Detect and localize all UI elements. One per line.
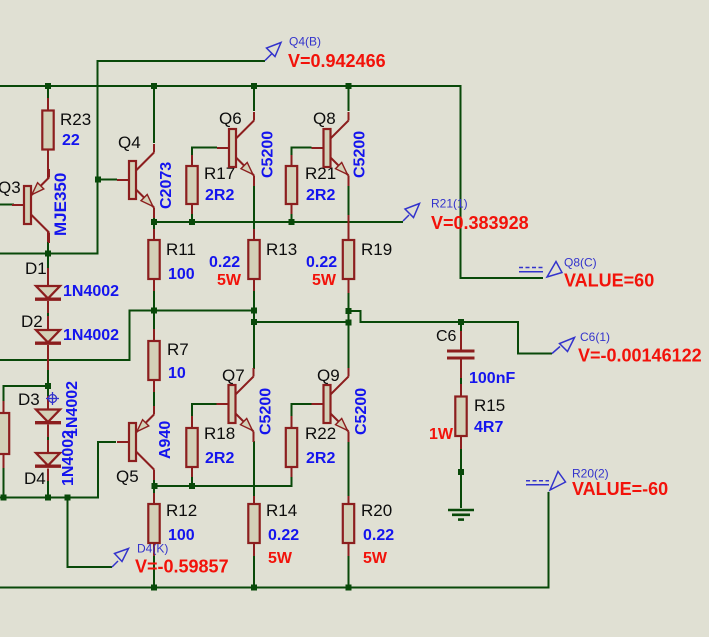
- junction driver rail / Q5 collector / R12: [152, 483, 158, 489]
- wire R19 bottom to jog junction: [348, 279, 350, 311]
- wire Q8 collector to top rail: [348, 86, 350, 111]
- svg-text:5W: 5W: [312, 272, 337, 289]
- svg-text:0.22: 0.22: [268, 527, 299, 544]
- svg-text:2R2: 2R2: [306, 450, 335, 467]
- junction jog lower / R19 column: [346, 320, 352, 326]
- junction top rail / Q4 collector: [151, 83, 157, 89]
- wire Q4 collector to top rail: [153, 86, 155, 143]
- voltage probe Q4(B) labels: [288, 35, 386, 72]
- wire Q6 collector to top rail: [253, 86, 255, 111]
- transistor Q8: [312, 109, 369, 186]
- voltage probe Q4(B) arrow: [265, 43, 281, 61]
- svg-text:1N4002: 1N4002: [60, 430, 77, 486]
- svg-text:2R2: 2R2: [205, 187, 234, 204]
- transistor Q3: [0, 169, 70, 243]
- wire Q4(B) probe branch: [98, 61, 266, 254]
- resistor R18: [186, 424, 235, 467]
- wire R18 bottom to driver rail: [191, 467, 193, 486]
- transistor Q7: [217, 366, 275, 442]
- svg-text:R19: R19: [361, 240, 392, 259]
- junction jog upper / R19 column: [346, 308, 352, 314]
- svg-text:A940: A940: [157, 421, 174, 459]
- svg-text:R11: R11: [166, 240, 196, 259]
- junction bottom rail / R14: [251, 585, 257, 591]
- svg-text:R13: R13: [266, 240, 297, 259]
- diode D1: [25, 259, 119, 300]
- transistor Q9: [312, 366, 371, 442]
- wire R18 top to Q7 base: [192, 404, 217, 428]
- ground symbol: [448, 510, 474, 520]
- wire Q6 emitter to R13 top: [253, 185, 255, 240]
- resistor R13: [209, 240, 297, 289]
- wire D1 cathode to D2 anode: [47, 301, 49, 330]
- svg-text:Q4: Q4: [118, 133, 141, 152]
- svg-text:1N4002: 1N4002: [63, 327, 119, 344]
- svg-text:2R2: 2R2: [306, 187, 335, 204]
- resistor R15: [429, 396, 505, 443]
- wire bottom-left rail y=497 and Q5 base branch: [0, 442, 116, 498]
- resistor R12: [148, 501, 197, 544]
- svg-text:0.22: 0.22: [306, 254, 337, 271]
- wire R7 bottom to Q5 emitter: [153, 380, 155, 408]
- svg-text:C6(1): C6(1): [580, 330, 610, 344]
- junction R15 ground wire: [458, 469, 464, 475]
- svg-text:D4: D4: [24, 469, 46, 488]
- transistor Q6: [217, 109, 277, 186]
- svg-text:Q4(B): Q4(B): [289, 35, 321, 49]
- wire node y=386 to D3 anode: [47, 386, 49, 410]
- junction Q3 collector / D1 node: [45, 251, 51, 257]
- svg-text:V=-0.59857: V=-0.59857: [135, 557, 229, 577]
- junction bottom-left rail / D4(K) probe: [65, 495, 71, 501]
- wire driver rail junction to R12 top: [153, 486, 155, 504]
- junction top rail / R23: [45, 83, 51, 89]
- svg-text:100nF: 100nF: [469, 370, 515, 387]
- resistor R22: [286, 424, 336, 467]
- svg-text:5W: 5W: [217, 272, 242, 289]
- wire output rail y=322 left segment: [254, 321, 349, 323]
- svg-text:R22: R22: [305, 424, 336, 443]
- svg-text:100: 100: [168, 266, 195, 283]
- svg-text:C6: C6: [436, 328, 457, 345]
- junction bottom rail / R12: [151, 585, 157, 591]
- wire Q4 emitter to mid rail junction: [153, 216, 155, 222]
- svg-text:R12: R12: [166, 501, 197, 520]
- junction mid rail / R21: [289, 219, 295, 225]
- resistor R19: [306, 240, 392, 289]
- wire left resistor branch: [4, 386, 49, 413]
- transistor Q4: [117, 133, 175, 218]
- wire Q8(C) branch down and right: [461, 85, 544, 278]
- wire top positive rail: [0, 85, 461, 87]
- svg-text:5W: 5W: [363, 550, 388, 567]
- svg-text:Q8(C): Q8(C): [564, 256, 597, 270]
- wire R21 top to Q8 base: [292, 148, 312, 167]
- resistor R20: [343, 501, 394, 567]
- junction mid rail / R17: [189, 219, 195, 225]
- junction top rail / Q6 collector: [251, 83, 257, 89]
- svg-text:10: 10: [168, 365, 186, 382]
- wire Q9 emitter to R20 top: [348, 441, 350, 507]
- junction bottom rail / R20: [346, 585, 352, 591]
- svg-text:Q5: Q5: [116, 467, 139, 486]
- svg-text:4R7: 4R7: [474, 419, 503, 436]
- svg-text:R15: R15: [474, 396, 505, 415]
- wire R12 bottom to bottom rail: [153, 543, 155, 588]
- svg-text:V=0.383928: V=0.383928: [431, 213, 529, 233]
- svg-text:22: 22: [62, 132, 80, 149]
- wire mid rail y=222 to probe R21(1): [154, 221, 403, 223]
- wire R17 top to Q6 base: [192, 148, 217, 167]
- wire R23 top pin to rail: [47, 86, 49, 111]
- voltage probe C6(1) arrow: [552, 338, 575, 354]
- resistor R11: [148, 240, 196, 283]
- svg-text:D3: D3: [18, 390, 40, 409]
- junction output rail / R11-R7: [151, 308, 157, 314]
- wire Q3 collector to node: [47, 232, 49, 254]
- voltage probe D4(K) arrow: [112, 549, 129, 568]
- svg-text:1N4002: 1N4002: [63, 283, 119, 300]
- diode D4: [24, 430, 77, 488]
- voltage probe C6(1) labels: [578, 330, 702, 366]
- wire driver rail y=486 (Q5 collector): [155, 467, 292, 486]
- dc generator probe Q8(C) symbol: [519, 262, 562, 278]
- svg-text:R14: R14: [266, 501, 297, 520]
- svg-text:Q9: Q9: [317, 366, 340, 385]
- svg-text:D1: D1: [25, 259, 47, 278]
- junction Q4 base / probe branch: [95, 177, 101, 183]
- wire R23 to Q3 emitter: [47, 149, 49, 179]
- resistor R7: [148, 340, 188, 382]
- svg-text:R7: R7: [167, 340, 189, 359]
- wire D4 cathode to bottom-left rail: [47, 469, 49, 498]
- svg-text:Q7: Q7: [222, 366, 245, 385]
- wire Q7 emitter to R14 top: [253, 441, 255, 507]
- svg-text:R18: R18: [204, 424, 235, 443]
- wire Q8 emitter to R19 top: [348, 185, 350, 240]
- transistor Q5: [116, 406, 174, 486]
- svg-text:D2: D2: [21, 312, 43, 331]
- wire D3 cathode to D4 anode: [47, 425, 49, 454]
- junction output rail / R13 column: [251, 308, 257, 314]
- junction top rail / Q8 collector: [346, 83, 352, 89]
- junction output rail / C6: [458, 319, 464, 325]
- dc generator probe R20(2) symbol: [526, 472, 566, 491]
- svg-text:Q3: Q3: [0, 178, 21, 197]
- svg-text:C5200: C5200: [258, 388, 275, 435]
- svg-text:2R2: 2R2: [205, 450, 234, 467]
- wire bottom negative rail: [0, 492, 549, 588]
- wire R11 bottom to output rail: [153, 279, 155, 311]
- resistor R21: [286, 164, 336, 204]
- origin marker near D3: [46, 392, 59, 405]
- wire R22 bottom pin: [291, 467, 293, 477]
- wire Q5 collector to driver rail junction: [153, 478, 155, 486]
- wire R13 bottom to output junctions: [253, 279, 255, 322]
- wire R20 bottom to bottom rail: [348, 543, 350, 588]
- wire D2 cathode to node y=386: [47, 345, 49, 386]
- diode D2: [21, 312, 119, 344]
- junction output rail lower / R13 column: [251, 319, 257, 325]
- wire C6 top pin: [460, 322, 462, 350]
- svg-text:R20: R20: [361, 501, 392, 520]
- svg-text:V=0.942466: V=0.942466: [288, 51, 386, 71]
- resistor R24: [0, 413, 9, 454]
- junction bottom-left rail / D4: [45, 495, 51, 501]
- svg-text:Q8: Q8: [313, 109, 336, 128]
- resistor R23: [42, 110, 91, 150]
- wire Q4 base: [98, 179, 117, 181]
- wire junction to R11 top: [153, 222, 155, 240]
- svg-text:D4(K): D4(K): [137, 542, 168, 556]
- svg-text:100: 100: [168, 527, 195, 544]
- wire R22 top to Q9 base: [292, 404, 312, 428]
- dc generator probe Q8(C) labels: [564, 256, 654, 291]
- junction D2-D3 / left resistor tap: [45, 383, 51, 389]
- wire R14 bottom to bottom rail: [253, 543, 255, 588]
- wire output jog to C6 and probe C6(1): [349, 311, 553, 354]
- wire Q3 base: [0, 204, 14, 206]
- wire output rail to R7 top: [153, 311, 155, 342]
- svg-text:MJE350: MJE350: [51, 173, 70, 236]
- wire node to D1 anode: [47, 254, 49, 287]
- resistor R17: [186, 164, 235, 204]
- dc generator probe R20(2) labels: [572, 467, 668, 500]
- voltage probe R21(1) arrow: [403, 204, 420, 222]
- junction mid rail / Q4 emitter / R11: [151, 219, 157, 225]
- svg-text:VALUE=60: VALUE=60: [564, 271, 654, 291]
- svg-text:C5200: C5200: [260, 131, 277, 178]
- svg-text:R21(1): R21(1): [431, 197, 468, 211]
- svg-text:1N4002: 1N4002: [64, 381, 81, 437]
- svg-text:0.22: 0.22: [209, 254, 240, 271]
- wire jog junction down to Q9 collector: [348, 311, 350, 369]
- wire D4(K) probe branch: [68, 498, 113, 568]
- wire output rail y=310: [0, 311, 254, 361]
- voltage probe D4(K) labels: [135, 542, 229, 577]
- wire node rail y=253 (Q3 collector / D1): [0, 253, 99, 255]
- capacitor C6: [436, 328, 515, 387]
- junction bottom-left rail / left resistor: [1, 495, 7, 501]
- svg-text:VALUE=-60: VALUE=-60: [572, 479, 668, 499]
- svg-text:R23: R23: [60, 110, 91, 129]
- wire R21 bottom to mid rail: [291, 204, 293, 222]
- svg-text:C5200: C5200: [352, 131, 369, 178]
- svg-text:V=-0.00146122: V=-0.00146122: [578, 346, 702, 366]
- svg-text:C5200: C5200: [353, 388, 370, 435]
- wire R15 bottom to ground: [460, 436, 462, 508]
- wire C6 bottom to R15 top: [460, 360, 462, 397]
- resistor R14: [248, 501, 299, 567]
- svg-text:Q6: Q6: [219, 109, 242, 128]
- wire output junction to Q7 collector: [253, 322, 255, 369]
- diode D3: [18, 381, 81, 437]
- wire left resistor bottom pin: [3, 454, 5, 498]
- svg-text:1W: 1W: [429, 426, 454, 443]
- svg-text:5W: 5W: [268, 550, 293, 567]
- voltage probe R21(1) labels: [431, 197, 529, 234]
- svg-text:C2073: C2073: [158, 162, 175, 209]
- junction driver rail / R18: [189, 483, 195, 489]
- svg-text:0.22: 0.22: [363, 527, 394, 544]
- wire R17 bottom to mid rail: [191, 204, 193, 222]
